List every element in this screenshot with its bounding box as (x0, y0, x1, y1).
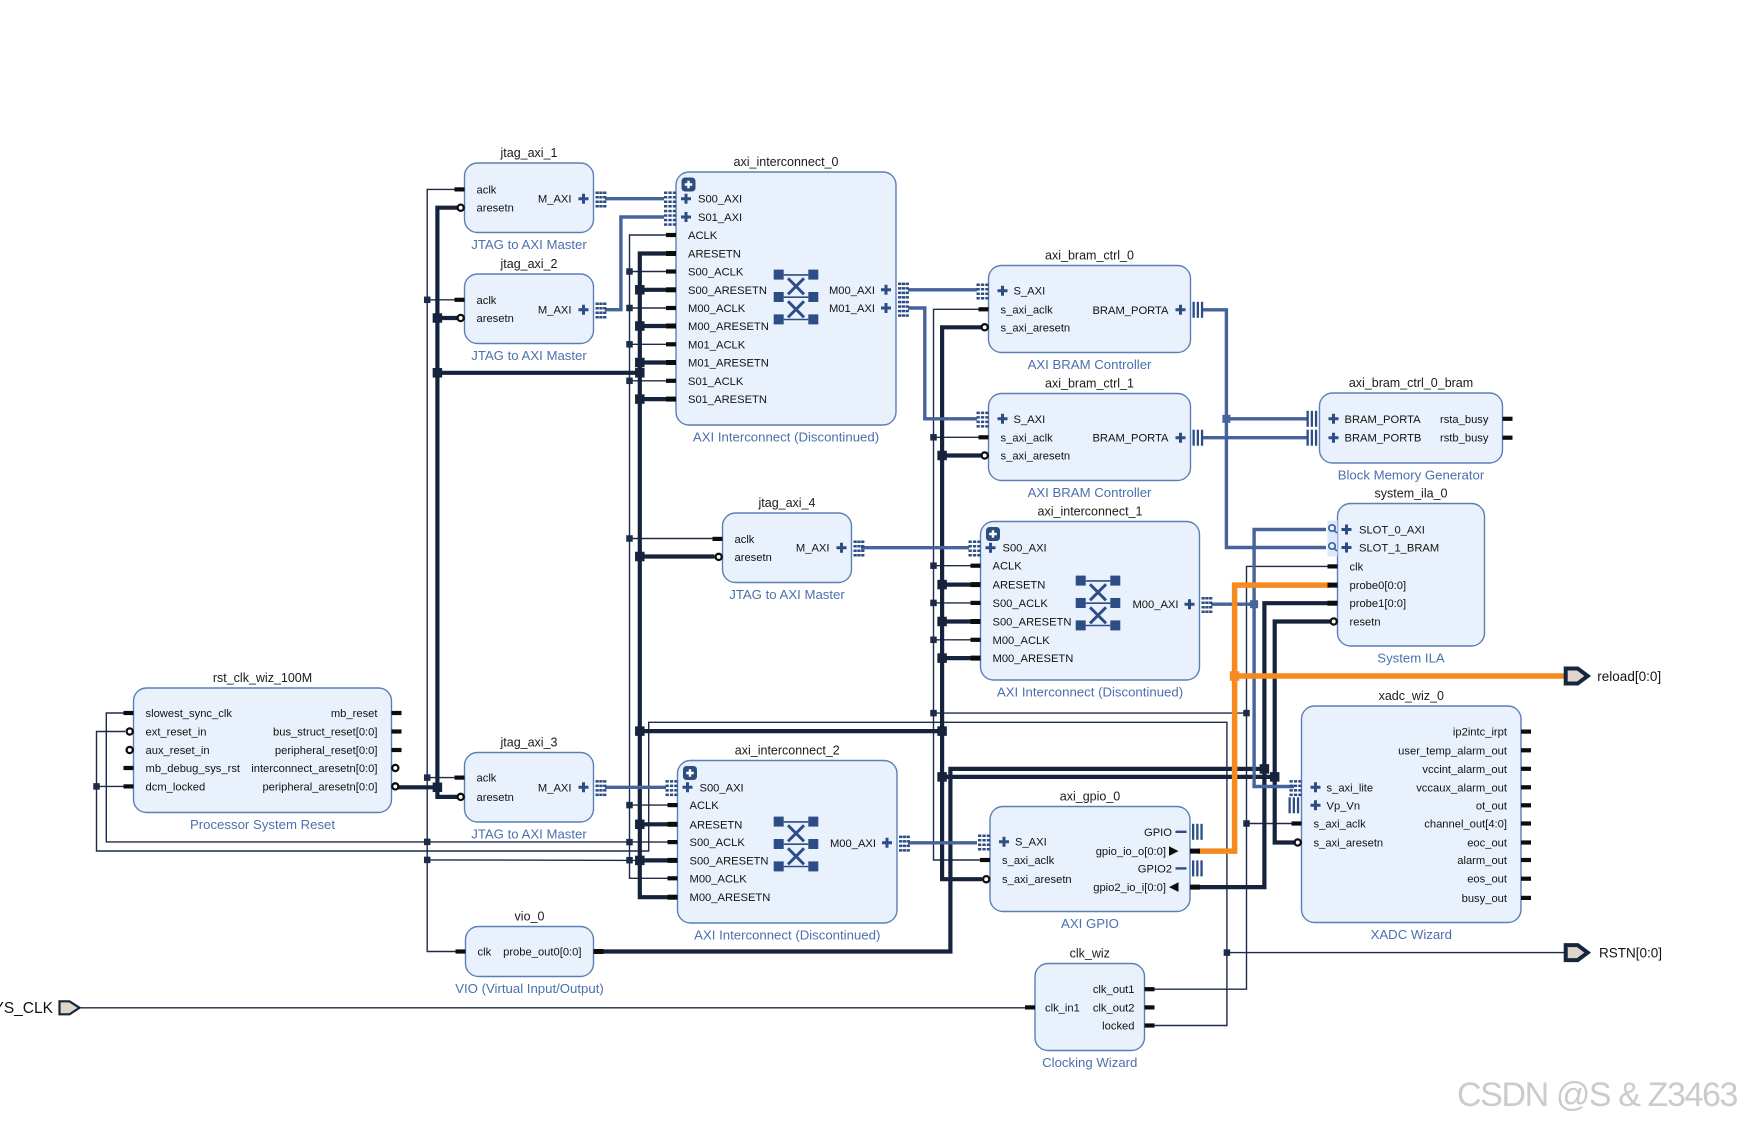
svg-text:Processor System Reset: Processor System Reset (190, 817, 335, 832)
svg-text:axi_gpio_0: axi_gpio_0 (1060, 790, 1121, 804)
svg-text:S01_ARESETN: S01_ARESETN (688, 394, 767, 406)
port reload[0:0] (1566, 669, 1588, 684)
port SYS_CLK (60, 1001, 80, 1014)
svg-text:xadc_wiz_0: xadc_wiz_0 (1379, 689, 1444, 703)
svg-text:axi_bram_ctrl_1: axi_bram_ctrl_1 (1045, 377, 1134, 391)
svg-text:s_axi_aclk: s_axi_aclk (1314, 819, 1367, 831)
axi_bram_ctrl_0 pins (977, 284, 1204, 335)
svg-text:channel_out[4:0]: channel_out[4:0] (1424, 819, 1507, 831)
wire axi bus interconnect1 M00_AXI to xadc s_axi_lite and SLOT_0_AXI (1211, 530, 1326, 787)
svg-text:probe0[0:0]: probe0[0:0] (1350, 580, 1407, 592)
svg-text:jtag_axi_3: jtag_axi_3 (500, 736, 558, 750)
svg-text:aresetn: aresetn (477, 313, 514, 325)
svg-text:S00_ACLK: S00_ACLK (690, 837, 746, 849)
wire axi bus interconnect0 M00_AXI to axi_bram_ctrl_0 S_AXI (908, 288, 977, 291)
wire axi bus jtag_axi_2 M_AXI to interconnect0 S01_AXI (605, 217, 664, 310)
svg-text:SLOT_0_AXI: SLOT_0_AXI (1359, 525, 1425, 537)
svg-text:XADC Wizard: XADC Wizard (1371, 927, 1452, 942)
svg-text:S00_ACLK: S00_ACLK (688, 267, 744, 279)
svg-text:system_ila_0: system_ila_0 (1375, 487, 1448, 501)
svg-text:JTAG to AXI Master: JTAG to AXI Master (471, 348, 587, 363)
svg-text:M00_ACLK: M00_ACLK (688, 303, 746, 315)
svg-text:BRAM_PORTA: BRAM_PORTA (1092, 305, 1169, 317)
svg-text:CSDN @S & Z3463: CSDN @S & Z3463 (1457, 1076, 1737, 1114)
axi_interconnect_2 expand button (683, 766, 697, 780)
svg-text:rst_clk_wiz_100M: rst_clk_wiz_100M (213, 671, 312, 685)
svg-text:aclk: aclk (735, 534, 755, 546)
svg-text:M00_ARESETN: M00_ARESETN (688, 321, 769, 333)
svg-text:clk_out2: clk_out2 (1093, 1002, 1135, 1014)
svg-text:S_AXI: S_AXI (1014, 414, 1046, 426)
svg-text:S01_AXI: S01_AXI (698, 212, 742, 224)
svg-text:aclk: aclk (477, 773, 497, 785)
svg-text:S_AXI: S_AXI (1015, 837, 1047, 849)
axi_interconnect_2 pins (666, 780, 910, 904)
svg-text:ARESETN: ARESETN (690, 819, 743, 831)
wire peripheral_aresetn net: bram/interconnect1 trunk x=942.1 (942, 327, 1275, 879)
svg-text:peripheral_aresetn[0:0]: peripheral_aresetn[0:0] (262, 781, 377, 793)
axi_interconnect_0 crossbar icon (774, 270, 819, 325)
jtag_axi_1 pins (455, 184, 607, 214)
block jtag_axi_4 (723, 496, 852, 602)
block xadc_wiz_0 (1302, 689, 1522, 942)
svg-text:dcm_locked: dcm_locked (146, 781, 206, 793)
svg-text:M00_ACLK: M00_ACLK (690, 873, 748, 885)
system_ila_0 pins (1328, 521, 1440, 629)
svg-text:S00_ARESETN: S00_ARESETN (993, 617, 1072, 629)
svg-text:AXI BRAM Controller: AXI BRAM Controller (1028, 357, 1152, 372)
wire peripheral_aresetn net: right trunk x=1274.7 to system_ila resetn and xadc (1275, 622, 1330, 843)
svg-text:M01_ARESETN: M01_ARESETN (688, 358, 769, 370)
wire clk net: jtag aclk trunk x=427 + slowest_sync_clk branch + vio clk (106, 189, 668, 951)
svg-text:s_axi_aresetn: s_axi_aresetn (1002, 874, 1072, 886)
block axi_gpio_0 (990, 790, 1190, 932)
svg-text:aresetn: aresetn (735, 552, 772, 564)
svg-text:Block Memory Generator: Block Memory Generator (1338, 468, 1485, 483)
wire clk net: right trunk x=1246.5 from system_ila clk to clk_wiz clk_out1 (1154, 566, 1330, 989)
svg-text:ARESETN: ARESETN (993, 580, 1046, 592)
svg-text:jtag_axi_2: jtag_axi_2 (500, 257, 558, 271)
svg-text:s_axi_aclk: s_axi_aclk (1001, 304, 1054, 316)
svg-text:axi_bram_ctrl_0: axi_bram_ctrl_0 (1045, 249, 1134, 263)
svg-text:M00_ARESETN: M00_ARESETN (690, 892, 771, 904)
svg-text:peripheral_reset[0:0]: peripheral_reset[0:0] (275, 745, 378, 757)
svg-text:jtag_axi_1: jtag_axi_1 (500, 146, 558, 160)
svg-text:mb_reset: mb_reset (331, 708, 379, 720)
svg-text:aresetn: aresetn (477, 203, 514, 215)
svg-text:S00_AXI: S00_AXI (700, 782, 744, 794)
port RSTN[0:0] (1566, 945, 1588, 960)
svg-text:locked: locked (1102, 1021, 1134, 1033)
svg-text:S00_ARESETN: S00_ARESETN (690, 855, 769, 867)
axi_interconnect_0 expand button (682, 178, 696, 192)
svg-text:aux_reset_in: aux_reset_in (146, 745, 210, 757)
svg-text:AXI Interconnect (Discontinued: AXI Interconnect (Discontinued) (693, 430, 879, 445)
block jtag_axi_2 (465, 257, 594, 363)
svg-text:aclk: aclk (477, 184, 497, 196)
svg-text:s_axi_aresetn: s_axi_aresetn (1001, 451, 1071, 463)
clk_wiz pins (1025, 984, 1155, 1032)
axi_bram_ctrl_1 pins (977, 412, 1204, 463)
wire peripheral_aresetn net: left trunk x=437.4 jtag1/2/3 (396, 208, 458, 797)
svg-text:AXI GPIO: AXI GPIO (1061, 916, 1119, 931)
rst_clk_wiz_100M pins (124, 708, 402, 793)
svg-text:M00_AXI: M00_AXI (1132, 599, 1178, 611)
svg-text:interconnect_aresetn[0:0]: interconnect_aresetn[0:0] (251, 763, 377, 775)
svg-text:M01_AXI: M01_AXI (829, 303, 875, 315)
wire vio probe_out0 net to gpio2_io_i and system_ila probe1 (601, 603, 1330, 951)
svg-text:mb_debug_sys_rst: mb_debug_sys_rst (146, 763, 241, 775)
block axi_interconnect_0 (676, 155, 896, 445)
svg-text:rstb_busy: rstb_busy (1440, 433, 1489, 445)
svg-text:S00_ACLK: S00_ACLK (993, 598, 1049, 610)
svg-text:M00_AXI: M00_AXI (829, 285, 875, 297)
svg-text:GPIO: GPIO (1144, 827, 1172, 839)
axi_interconnect_1 expand button (986, 527, 1000, 541)
block jtag_axi_1 (465, 146, 594, 252)
svg-text:axi_interconnect_0: axi_interconnect_0 (734, 155, 839, 169)
svg-text:M_AXI: M_AXI (538, 194, 572, 206)
svg-text:busy_out: busy_out (1462, 893, 1508, 905)
svg-text:ARESETN: ARESETN (688, 249, 741, 261)
svg-text:s_axi_lite: s_axi_lite (1327, 782, 1374, 794)
wire clk net: bram/interconnect1 trunk x=933.5 and branch y=713 (934, 309, 1247, 860)
svg-text:BRAM_PORTA: BRAM_PORTA (1345, 414, 1422, 426)
svg-text:M_AXI: M_AXI (538, 305, 572, 317)
block vio_0 (455, 910, 604, 997)
svg-text:clk: clk (478, 947, 492, 959)
svg-text:M_AXI: M_AXI (538, 782, 572, 794)
svg-text:Vp_Vn: Vp_Vn (1327, 800, 1361, 812)
axi_interconnect_1 pins (969, 541, 1213, 666)
wire bram_ctrl_0 BRAM_PORTA to block memory and SLOT_1_BRAM (1201, 310, 1326, 548)
wire axi bus interconnect2 M00_AXI to axi_gpio_0 S_AXI (908, 841, 977, 844)
svg-text:M00_ARESETN: M00_ARESETN (993, 653, 1074, 665)
svg-text:AXI Interconnect (Discontinued: AXI Interconnect (Discontinued) (694, 928, 880, 943)
wire SYS_CLK to clk_wiz clk_in1 (79, 1007, 1027, 1009)
svg-text:ot_out: ot_out (1476, 800, 1508, 812)
svg-text:s_axi_aresetn: s_axi_aresetn (1001, 322, 1071, 334)
svg-text:BRAM_PORTA: BRAM_PORTA (1092, 433, 1169, 445)
svg-text:RSTN[0:0]: RSTN[0:0] (1599, 946, 1662, 961)
svg-text:user_temp_alarm_out: user_temp_alarm_out (1398, 745, 1508, 757)
svg-text:S00_AXI: S00_AXI (1003, 543, 1047, 555)
wire orange gpio_io_o net to system_ila probe0 and reload port (1198, 585, 1566, 851)
svg-text:Clocking Wizard: Clocking Wizard (1042, 1055, 1137, 1070)
block jtag_axi_3 (465, 736, 594, 842)
wire junction dots (93, 268, 1279, 956)
svg-text:bus_struct_reset[0:0]: bus_struct_reset[0:0] (273, 727, 377, 739)
svg-text:System ILA: System ILA (1377, 651, 1445, 666)
jtag_axi_3 pins (455, 773, 607, 804)
svg-text:clk_wiz: clk_wiz (1070, 947, 1110, 961)
block axi_bram_ctrl_0 (989, 249, 1191, 373)
svg-text:ACLK: ACLK (688, 230, 718, 242)
svg-text:s_axi_aresetn: s_axi_aresetn (1314, 838, 1384, 850)
svg-text:gpio2_io_i[0:0]: gpio2_io_i[0:0] (1093, 882, 1166, 894)
svg-text:probe_out0[0:0]: probe_out0[0:0] (503, 947, 581, 959)
axi_bram_ctrl_0_bram pins (1307, 411, 1513, 446)
svg-text:GPIO2: GPIO2 (1138, 863, 1172, 875)
svg-text:YS_CLK: YS_CLK (0, 1000, 54, 1017)
jtag_axi_4 pins (713, 534, 865, 564)
svg-text:clk_in1: clk_in1 (1045, 1002, 1080, 1014)
svg-text:ip2intc_irpt: ip2intc_irpt (1453, 727, 1508, 739)
block clk_wiz (1035, 947, 1145, 1071)
svg-text:rsta_busy: rsta_busy (1440, 414, 1489, 426)
svg-text:S01_ACLK: S01_ACLK (688, 376, 744, 388)
svg-text:S_AXI: S_AXI (1014, 286, 1046, 298)
svg-text:VIO (Virtual Input/Output): VIO (Virtual Input/Output) (455, 981, 604, 996)
svg-text:slowest_sync_clk: slowest_sync_clk (146, 708, 233, 720)
svg-text:JTAG to AXI Master: JTAG to AXI Master (729, 587, 845, 602)
svg-text:aclk: aclk (477, 295, 497, 307)
svg-text:gpio_io_o[0:0]: gpio_io_o[0:0] (1096, 846, 1166, 858)
wire axi bus jtag_axi_4 M_AXI to interconnect1 S00_AXI (861, 546, 969, 549)
svg-text:vccaux_alarm_out: vccaux_alarm_out (1416, 782, 1508, 794)
svg-text:probe1[0:0]: probe1[0:0] (1350, 598, 1407, 610)
svg-text:eos_out: eos_out (1467, 874, 1508, 886)
axi_interconnect_0 pins (664, 192, 909, 407)
svg-text:AXI BRAM Controller: AXI BRAM Controller (1028, 485, 1152, 500)
axi_gpio_0 pins (978, 824, 1203, 894)
block axi_bram_ctrl_0_bram (1320, 376, 1503, 483)
wire bram_ctrl_1 BRAM_PORTA to block memory BRAM_PORTB (1201, 436, 1308, 439)
svg-text:reload[0:0]: reload[0:0] (1597, 669, 1661, 684)
svg-text:eoc_out: eoc_out (1467, 838, 1508, 850)
xadc_wiz_0 pins (1289, 727, 1532, 905)
svg-text:s_axi_aclk: s_axi_aclk (1001, 432, 1054, 444)
svg-text:JTAG to AXI Master: JTAG to AXI Master (471, 827, 587, 842)
block system_ila_0 (1338, 487, 1485, 666)
block axi_interconnect_2 (678, 744, 898, 943)
svg-text:vccint_alarm_out: vccint_alarm_out (1422, 764, 1507, 776)
svg-text:JTAG to AXI Master: JTAG to AXI Master (471, 237, 587, 252)
svg-text:vio_0: vio_0 (515, 910, 545, 924)
wire peripheral_aresetn net: interconnect trunk x=639.8 (437, 254, 942, 898)
wire axi bus jtag_axi_1 M_AXI to interconnect0 S00_AXI (605, 197, 664, 200)
svg-text:M_AXI: M_AXI (796, 543, 830, 555)
svg-text:M00_AXI: M00_AXI (830, 838, 876, 850)
svg-text:S00_ARESETN: S00_ARESETN (688, 285, 767, 297)
svg-text:s_axi_aclk: s_axi_aclk (1002, 855, 1055, 867)
svg-text:alarm_out: alarm_out (1457, 855, 1508, 867)
svg-text:aresetn: aresetn (477, 792, 514, 804)
svg-text:S00_AXI: S00_AXI (698, 194, 742, 206)
wire clk net: interconnect trunk x=629.5 (630, 235, 715, 878)
axi_interconnect_1 crossbar icon (1076, 576, 1121, 631)
svg-text:ext_reset_in: ext_reset_in (146, 727, 207, 739)
wire locked/reset net: clk_wiz locked - RSTN - ext_reset_in - dcm_locked (97, 722, 1567, 1025)
vio_0 pins (456, 947, 604, 959)
block rst_clk_wiz_100M (134, 671, 392, 832)
svg-text:clk_out1: clk_out1 (1093, 984, 1135, 996)
svg-text:M00_ACLK: M00_ACLK (993, 635, 1051, 647)
axi_interconnect_2 crossbar icon (774, 817, 819, 872)
svg-text:axi_interconnect_2: axi_interconnect_2 (735, 744, 840, 758)
jtag_axi_2 pins (455, 295, 607, 325)
svg-text:AXI Interconnect (Discontinued: AXI Interconnect (Discontinued) (997, 685, 1183, 700)
svg-text:jtag_axi_4: jtag_axi_4 (758, 496, 816, 510)
wire axi bus interconnect0 M01_AXI to axi_bram_ctrl_1 S_AXI (908, 308, 977, 419)
svg-text:axi_interconnect_1: axi_interconnect_1 (1038, 505, 1143, 519)
svg-text:BRAM_PORTB: BRAM_PORTB (1345, 433, 1422, 445)
svg-text:SLOT_1_BRAM: SLOT_1_BRAM (1359, 543, 1439, 555)
block axi_bram_ctrl_1 (989, 377, 1191, 501)
svg-text:ACLK: ACLK (993, 561, 1023, 573)
svg-text:ACLK: ACLK (690, 800, 720, 812)
svg-text:M01_ACLK: M01_ACLK (688, 339, 746, 351)
svg-text:resetn: resetn (1350, 617, 1381, 629)
wire axi bus jtag_axi_3 M_AXI to interconnect2 S00_AXI (605, 786, 666, 789)
block axi_interconnect_1 (981, 505, 1200, 700)
svg-text:axi_bram_ctrl_0_bram: axi_bram_ctrl_0_bram (1349, 376, 1473, 390)
svg-text:clk: clk (1350, 561, 1364, 573)
